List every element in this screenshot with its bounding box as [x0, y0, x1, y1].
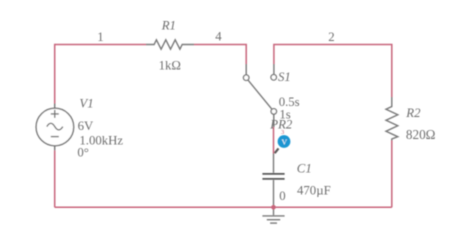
svg-text:S1: S1 [278, 70, 291, 84]
svg-text:V1: V1 [79, 97, 93, 111]
svg-text:1: 1 [97, 30, 103, 44]
svg-text:3: 3 [281, 129, 284, 136]
svg-text:0°: 0° [77, 146, 89, 160]
svg-text:470µF: 470µF [297, 183, 331, 197]
svg-text:6V: 6V [78, 119, 94, 133]
svg-text:0: 0 [279, 189, 285, 203]
svg-text:R2: R2 [405, 106, 421, 120]
svg-text:1kΩ: 1kΩ [159, 58, 181, 72]
svg-text:V: V [281, 137, 287, 146]
svg-text:2: 2 [328, 30, 334, 44]
svg-text:C1: C1 [297, 162, 312, 176]
svg-text:R1: R1 [161, 19, 176, 33]
svg-text:820Ω: 820Ω [406, 127, 436, 142]
svg-text:4: 4 [215, 29, 222, 43]
